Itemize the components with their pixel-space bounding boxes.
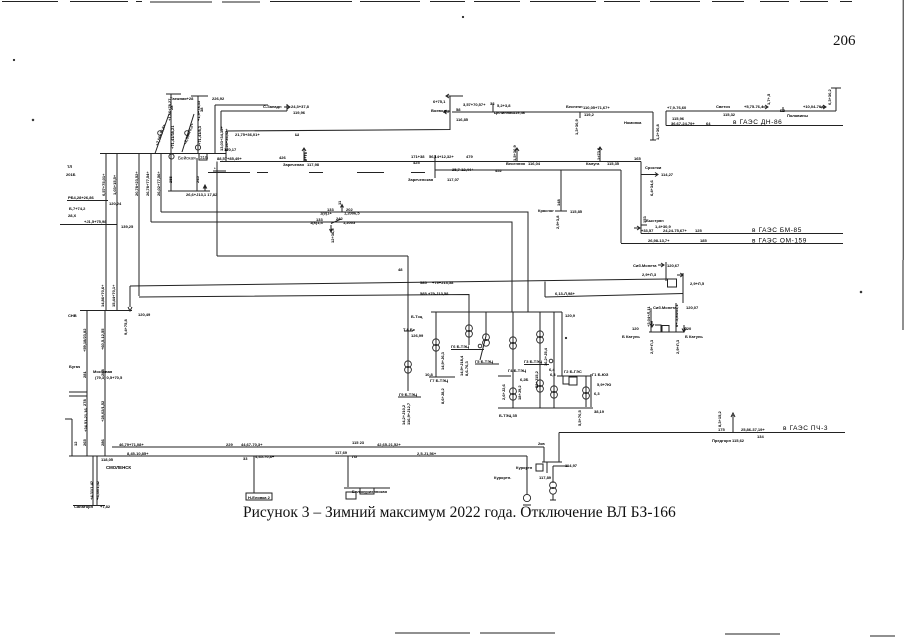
svg-text:8,3+15,2: 8,3+15,2 — [717, 411, 722, 427]
svg-text:в ГАЭС ОМ-159: в ГАЭС ОМ-159 — [752, 238, 807, 245]
svg-text:+2,98+70,2+: +2,98+70,2+ — [182, 122, 195, 146]
svg-text:Л20: Л20 — [684, 326, 692, 331]
svg-text:2,6+J2,6: 2,6+J2,6 — [501, 384, 506, 400]
svg-text:201Б: 201Б — [66, 172, 76, 177]
svg-text:25,86-37,19+: 25,86-37,19+ — [741, 427, 765, 432]
svg-text:115,85: 115,85 — [570, 209, 583, 214]
svg-text:8,45-10,85+: 8,45-10,85+ — [127, 451, 149, 456]
svg-text:33: 33 — [243, 456, 248, 461]
svg-text:120,9: 120,9 — [565, 313, 576, 318]
svg-text:6,3: 6,3 — [594, 391, 600, 396]
svg-text:Сиб.Монета: Сиб.Монета — [633, 263, 657, 268]
svg-text:18+J9,2: 18+J9,2 — [517, 385, 522, 400]
svg-text:116,85: 116,85 — [456, 117, 469, 122]
svg-text:115,32: 115,32 — [723, 112, 736, 117]
svg-text:2,9+Л,5: 2,9+Л,5 — [690, 281, 705, 286]
svg-text:+33,57: +33,57 — [641, 228, 654, 233]
svg-text:44,67-70,3+: 44,67-70,3+ — [241, 442, 263, 447]
svg-text:С-Западн: С-Западн — [263, 104, 282, 109]
svg-text:126,99: 126,99 — [411, 333, 424, 338]
svg-text:Курортн: Курортн — [516, 465, 533, 470]
svg-text:8,6-76,3: 8,6-76,3 — [464, 361, 469, 376]
svg-text:1,2003: 1,2003 — [343, 220, 356, 225]
svg-text:26,02+77,56+: 26,02+77,56+ — [156, 171, 161, 196]
svg-text:120: 120 — [632, 326, 639, 331]
svg-text:+24,51-21,16: +24,51-21,16 — [83, 408, 88, 432]
svg-text:1(8)1,4: 1(8)1,4 — [310, 220, 323, 225]
svg-text:226,92: 226,92 — [212, 96, 225, 101]
svg-text:Б-Тэц: Б-Тэц — [411, 314, 423, 319]
svg-text:64: 64 — [706, 121, 711, 126]
svg-text:Л5: Л5 — [352, 454, 358, 459]
svg-text:в ГАЭС ПЧ-3: в ГАЭС ПЧ-3 — [783, 425, 828, 432]
svg-text:26,78+77,54+: 26,78+77,54+ — [145, 171, 150, 196]
svg-text:в ГАЭС БМ-85: в ГАЭС БМ-85 — [752, 227, 802, 234]
svg-text:5,5+70,5: 5,5+70,5 — [577, 410, 582, 426]
svg-text:15,44+70,1+: 15,44+70,1+ — [111, 284, 116, 307]
svg-text:148: 148 — [556, 199, 561, 206]
svg-text:Беспечн: Беспечн — [566, 104, 583, 109]
svg-text:0,3+30,2: 0,3+30,2 — [827, 89, 832, 105]
svg-text:114,97: 114,97 — [565, 463, 578, 468]
svg-text:48: 48 — [398, 267, 403, 272]
svg-text:+3,04+Л,11: +3,04+Л,11 — [646, 306, 651, 327]
svg-text:120,07: 120,07 — [686, 305, 699, 310]
svg-text:114,27: 114,27 — [661, 172, 674, 177]
svg-text:2,9+Л,3: 2,9+Л,3 — [649, 339, 654, 354]
svg-text:Т 8 Бк: Т 8 Бк — [403, 327, 415, 332]
svg-text:6+-3,84/31,1: 6+-3,84/31,1 — [674, 304, 679, 327]
svg-text:16,2+J5,4: 16,2+J5,4 — [543, 347, 548, 366]
svg-text:в ГАЭС ДН-86: в ГАЭС ДН-86 — [733, 119, 782, 126]
svg-text:36,67-24,79+: 36,67-24,79+ — [671, 121, 695, 126]
svg-text:Целинная: Целинная — [494, 110, 514, 115]
svg-text:38: 38 — [490, 101, 495, 106]
svg-text:Номинка: Номинка — [624, 120, 642, 125]
svg-text:+10,04-76,9: +10,04-76,9 — [803, 104, 825, 109]
svg-text:2,9+Л,3: 2,9+Л,3 — [675, 339, 680, 354]
svg-text:12+36,5: 12+36,5 — [330, 228, 335, 243]
svg-text:Зареченая: Зареченая — [283, 162, 304, 167]
svg-text:Белокурихинская: Белокурихинская — [352, 489, 388, 494]
svg-text:11: 11 — [337, 200, 342, 205]
svg-text:Г4 Б-ТЭЦ: Г4 Б-ТЭЦ — [508, 368, 526, 373]
svg-text:СМОЛЕНСК: СМОЛЕНСК — [106, 465, 131, 470]
svg-text:288: 288 — [100, 369, 105, 376]
svg-text:1+73,6: 1+73,6 — [596, 147, 601, 160]
svg-text:585: 585 — [420, 291, 427, 296]
svg-text:153: 153 — [642, 216, 647, 223]
svg-text:Б-ТЭЦ 35: Б-ТЭЦ 35 — [499, 413, 518, 418]
svg-text:88,57+85,49+: 88,57+85,49+ — [217, 156, 242, 161]
svg-text:Санаторн: Санаторн — [74, 504, 94, 509]
svg-text:Б,7+74,2: Б,7+74,2 — [69, 206, 86, 211]
svg-text:1(8)1+: 1(8)1+ — [320, 211, 332, 216]
svg-text:58+J15,2: 58+J15,2 — [534, 370, 539, 388]
svg-text:265: 265 — [82, 439, 87, 446]
svg-text:117,69: 117,69 — [335, 450, 348, 455]
svg-text:Б Катунь: Б Катунь — [685, 334, 703, 339]
svg-text:0,57+75,01+: 0,57+75,01+ — [101, 173, 106, 196]
svg-text:+J1,5+75,98: +J1,5+75,98 — [84, 219, 107, 224]
svg-text:Половины: Половины — [787, 113, 808, 118]
svg-text:38: 38 — [199, 107, 204, 112]
svg-text:479: 479 — [466, 154, 473, 159]
svg-text:14,86+70,6+: 14,86+70,6+ — [100, 284, 105, 307]
svg-text:5,2+3,8: 5,2+3,8 — [497, 103, 511, 108]
svg-text:2+71: 2+71 — [303, 151, 308, 161]
svg-text:*: * — [214, 166, 216, 171]
svg-text:2,9+3,8: 2,9+3,8 — [555, 215, 560, 229]
svg-text:56,14+12,32+: 56,14+12,32+ — [429, 154, 454, 159]
svg-text:Курортн.: Курортн. — [494, 475, 511, 480]
svg-text:6,4+34,6: 6,4+34,6 — [649, 180, 654, 196]
svg-text:Г6 Б-ТЭЦ: Г6 Б-ТЭЦ — [451, 344, 469, 349]
svg-text:Г1 Б-ЮЗ: Г1 Б-ЮЗ — [592, 372, 609, 377]
svg-text:20,78+23,52+: 20,78+23,52+ — [134, 171, 139, 196]
svg-text:4,45-70,8+: 4,45-70,8+ — [255, 454, 275, 459]
svg-text:Воеводск: Воеводск — [431, 108, 450, 113]
svg-text:120,17: 120,17 — [224, 147, 237, 152]
svg-text:255: 255 — [168, 176, 173, 183]
svg-text:СНВ: СНВ — [68, 313, 77, 318]
svg-text:Сростки: Сростки — [645, 165, 662, 170]
svg-text:+59,18/23,82: +59,18/23,82 — [82, 328, 87, 352]
svg-text:+7,56+75,6+: +7,56+75,6+ — [154, 123, 167, 147]
svg-text:Зареченская: Зареченская — [408, 177, 434, 182]
svg-text:Бейская: Бейская — [178, 155, 196, 161]
svg-text:Таежная+28: Таежная+28 — [170, 96, 194, 101]
svg-text:+79-J13,58: +79-J13,58 — [428, 291, 449, 296]
svg-text:+71,41/8,3: +71,41/8,3 — [197, 125, 202, 145]
svg-text:9,4+75,8: 9,4+75,8 — [123, 319, 128, 335]
svg-text:1,03+15,5+: 1,03+15,5+ — [112, 174, 117, 195]
svg-text:286: 286 — [100, 439, 105, 446]
svg-text:24,24-75,67+: 24,24-75,67+ — [663, 228, 687, 233]
svg-text:+71,41/38,21: +71,41/38,21 — [170, 125, 175, 149]
svg-text:115,35: 115,35 — [607, 161, 620, 166]
svg-text:1,2006,5: 1,2006,5 — [344, 211, 360, 216]
svg-text:229: 229 — [226, 442, 233, 447]
svg-text:1,2+30,8: 1,2+30,8 — [655, 124, 660, 140]
svg-text:125: 125 — [695, 228, 702, 233]
svg-text:Красног: Красног — [538, 208, 554, 213]
svg-text:Калуга: Калуга — [586, 161, 600, 166]
svg-text:38,19: 38,19 — [594, 409, 605, 414]
svg-text:+4,30/1,42: +4,30/1,42 — [95, 480, 100, 500]
svg-text:24,3+37,8: 24,3+37,8 — [291, 104, 310, 109]
svg-text:1,7+,5: 1,7+,5 — [766, 93, 771, 105]
svg-text:2,9+Л,3: 2,9+Л,3 — [642, 272, 657, 277]
svg-text:Н-Еловка 2: Н-Еловка 2 — [248, 495, 271, 500]
svg-text:119,2: 119,2 — [584, 112, 595, 117]
svg-text:185: 185 — [700, 238, 707, 243]
svg-text:12: 12 — [73, 441, 78, 446]
svg-text:ЕЗ: ЕЗ — [780, 108, 786, 113]
svg-text:2кв: 2кв — [538, 441, 545, 446]
svg-text:+28,02/1,52: +28,02/1,52 — [100, 400, 105, 422]
svg-text:281: 281 — [82, 371, 87, 378]
svg-text:6+75,1: 6+75,1 — [433, 99, 446, 104]
svg-text:+7,9-76,60: +7,9-76,60 — [667, 105, 687, 110]
svg-text:3,57+70,57+: 3,57+70,57+ — [463, 102, 486, 107]
svg-text:Светоч: Светоч — [716, 104, 731, 109]
svg-text:6,3: 6,3 — [550, 372, 556, 377]
svg-text:Быстрян: Быстрян — [646, 218, 664, 223]
svg-text:10,8: 10,8 — [425, 372, 434, 377]
svg-text:28,Х: 28,Х — [68, 213, 77, 218]
svg-text:120,24: 120,24 — [109, 201, 122, 206]
svg-text:110,05+71,67+: 110,05+71,67+ — [583, 105, 610, 110]
svg-text:120,49: 120,49 — [138, 312, 151, 317]
svg-text:119,96: 119,96 — [293, 110, 306, 115]
svg-text:116,04: 116,04 — [528, 161, 541, 166]
svg-text:РБ4,28+26,86: РБ4,28+26,86 — [68, 195, 94, 200]
svg-text:117,98: 117,98 — [307, 162, 320, 167]
svg-text:117,07: 117,07 — [447, 177, 460, 182]
svg-text:28: 28 — [169, 105, 174, 110]
svg-text:245: 245 — [195, 176, 200, 183]
svg-text:ТЛ: ТЛ — [67, 164, 72, 169]
svg-text:+79+J13,58: +79+J13,58 — [432, 280, 454, 285]
svg-text:134: 134 — [757, 434, 764, 439]
svg-text:1,5+30,9: 1,5+30,9 — [512, 145, 517, 161]
svg-text:165: 165 — [634, 156, 641, 161]
svg-text:119,46: 119,46 — [513, 110, 526, 115]
svg-text:46,79+71,08+: 46,79+71,08+ — [119, 442, 144, 447]
svg-text:120,67: 120,67 — [667, 263, 680, 268]
svg-text:21,75+36,01+: 21,75+36,01+ — [235, 132, 260, 137]
svg-text:+60,5-12,55: +60,5-12,55 — [100, 328, 105, 350]
svg-text:115,62: 115,62 — [732, 438, 745, 443]
svg-text:Г9 Б-ТЭЦ: Г9 Б-ТЭЦ — [399, 392, 417, 397]
svg-text:452: 452 — [495, 168, 502, 173]
svg-text:Г7 Б-ТЭЦ: Г7 Б-ТЭЦ — [430, 378, 448, 383]
svg-text:585: 585 — [420, 280, 427, 285]
svg-text:+7,82: +7,82 — [100, 504, 111, 509]
svg-text:118,05: 118,05 — [101, 457, 114, 462]
svg-text:8,6+J8,2: 8,6+J8,2 — [440, 388, 445, 404]
svg-text:14,9+J6,3: 14,9+J6,3 — [440, 351, 445, 370]
svg-text:26,6+J13,1 17,82: 26,6+J13,1 17,82 — [186, 192, 218, 197]
svg-text:Предгорн: Предгорн — [712, 438, 732, 443]
svg-text:139,25: 139,25 — [121, 224, 134, 229]
svg-text:+4,31/1,42: +4,31/1,42 — [89, 480, 94, 500]
svg-text:2,5-J1,56+: 2,5-J1,56+ — [417, 451, 437, 456]
svg-text:Г2 Б-ГЭС: Г2 Б-ГЭС — [564, 369, 582, 374]
svg-text:1,3+30,9: 1,3+30,9 — [574, 119, 579, 135]
svg-text:Ш: Ш — [295, 132, 299, 137]
svg-text:425: 425 — [413, 160, 420, 165]
svg-text:42,65-21,52+: 42,65-21,52+ — [377, 442, 401, 447]
svg-text:6,2Б: 6,2Б — [520, 377, 529, 382]
svg-text:Г5 Б-ТЭЦ: Г5 Б-ТЭЦ — [475, 359, 493, 364]
svg-text:115 23: 115 23 — [352, 440, 365, 445]
svg-text:Б Катунь: Б Катунь — [622, 334, 640, 339]
svg-text:+5,75-76,4: +5,75-76,4 — [744, 104, 764, 109]
svg-text:31Б: 31Б — [200, 155, 208, 160]
svg-text:6,13-Л,98+: 6,13-Л,98+ — [555, 291, 575, 296]
svg-text:Г3 Б-ТЭЦ: Г3 Б-ТЭЦ — [524, 359, 542, 364]
svg-text:116,9+J12,7: 116,9+J12,7 — [406, 402, 411, 425]
svg-text:26,98-13,7+: 26,98-13,7+ — [648, 238, 670, 243]
svg-text:171+38: 171+38 — [411, 154, 425, 159]
svg-text:25,7-12,44+: 25,7-12,44+ — [452, 167, 474, 172]
svg-text:Бугач: Бугач — [69, 364, 81, 369]
svg-text:278: 278 — [82, 399, 87, 406]
svg-text:426: 426 — [279, 155, 286, 160]
svg-text:5,9+7Ю: 5,9+7Ю — [597, 382, 611, 387]
svg-text:58: 58 — [456, 107, 461, 112]
svg-text:117,89: 117,89 — [539, 475, 552, 480]
